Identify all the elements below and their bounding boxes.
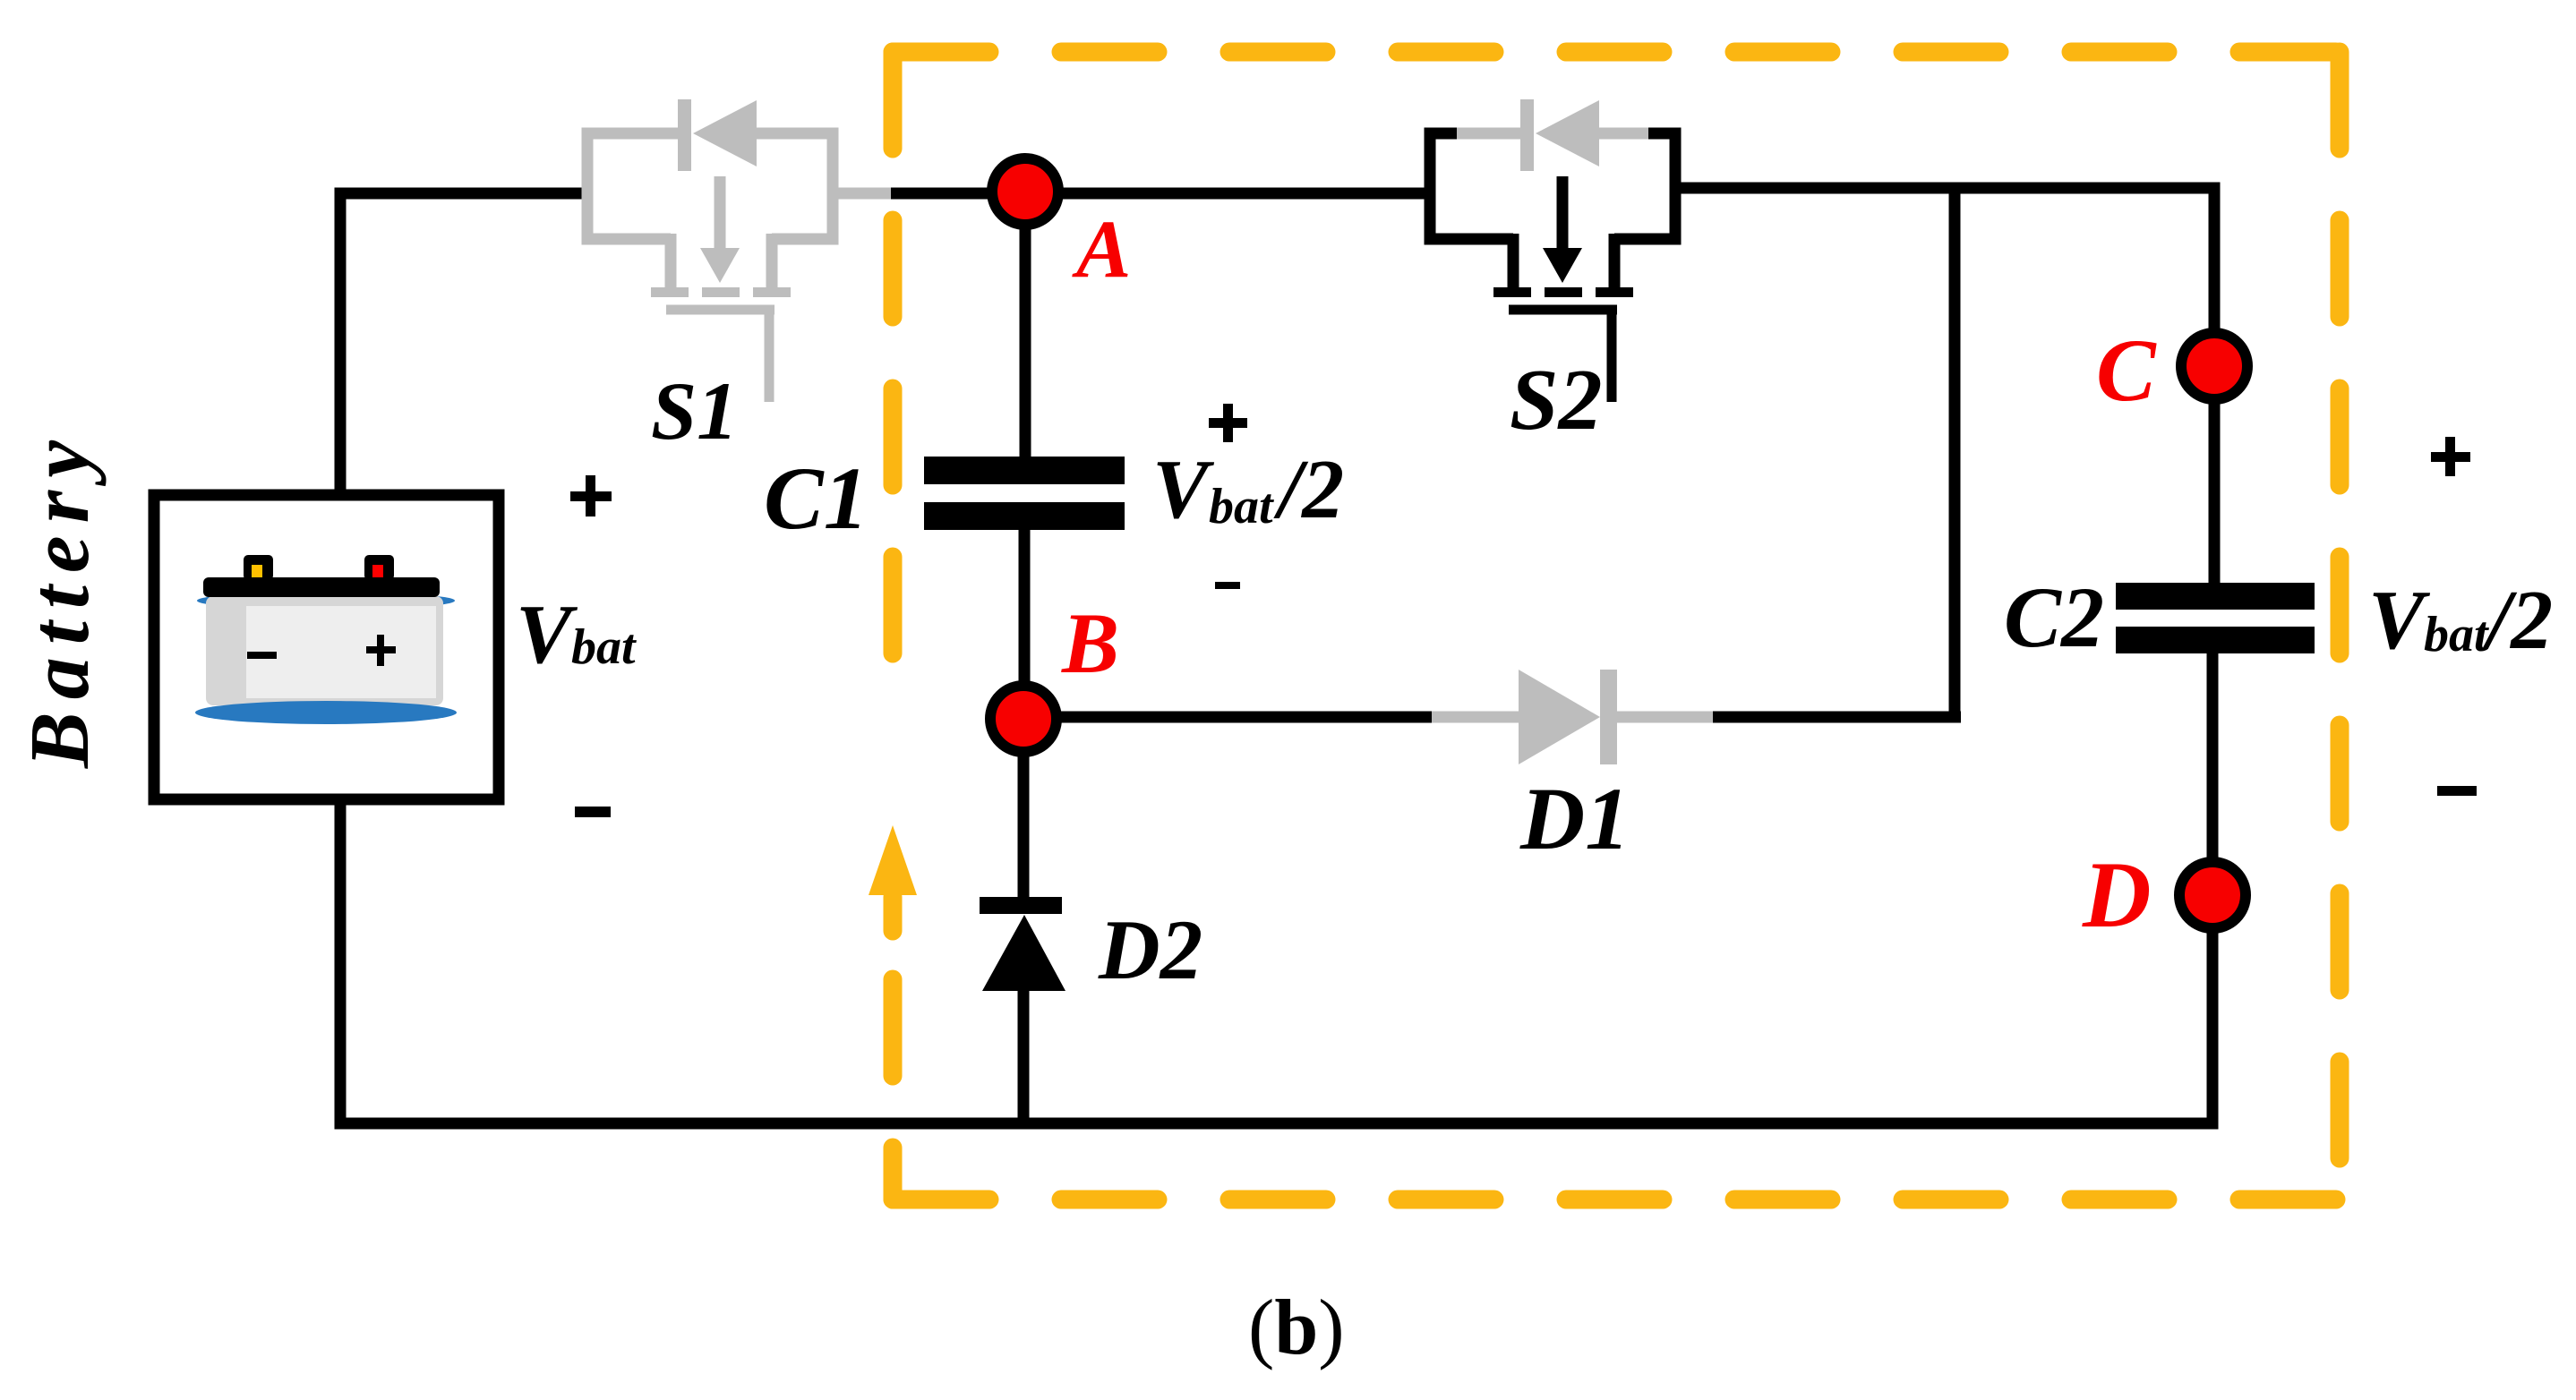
svg-text:D: D bbox=[2082, 842, 2152, 947]
svg-text:S2: S2 bbox=[1510, 352, 1603, 448]
diode D1 bbox=[1432, 670, 1713, 764]
node D bbox=[2179, 862, 2246, 928]
svg-text:bat: bat bbox=[1209, 479, 1274, 534]
wire: battery plus riser and top run to S1 bbox=[340, 193, 587, 490]
svg-text:/2: /2 bbox=[1273, 443, 1344, 536]
capacitor C2 bbox=[2116, 583, 2315, 653]
wire: node A down to C1 top plate bbox=[1020, 192, 1031, 458]
transistor S1 bbox=[587, 99, 833, 402]
battery box bbox=[154, 495, 499, 799]
svg-text:V: V bbox=[516, 588, 578, 681]
node A bbox=[992, 158, 1058, 225]
svg-text:B: B bbox=[1061, 595, 1119, 691]
wire: node B to D1 and D1 to riser bbox=[1023, 712, 1961, 723]
transistor S2 bbox=[1430, 99, 1675, 402]
svg-text:bat: bat bbox=[571, 619, 637, 675]
capacitor C1 bbox=[924, 457, 1125, 530]
svg-text:C1: C1 bbox=[764, 448, 869, 548]
wire: D1 riser to top-right run bbox=[1949, 188, 1961, 717]
output minus sign bbox=[2437, 786, 2477, 796]
node B bbox=[990, 686, 1057, 752]
node C bbox=[2181, 333, 2247, 399]
wire: battery minus riser, bottom rail and right riser to C2 bbox=[340, 652, 2212, 1123]
battery icon bbox=[195, 555, 457, 724]
svg-text:S1: S1 bbox=[651, 365, 738, 457]
svg-text:bat: bat bbox=[2424, 607, 2489, 662]
output plus sign bbox=[2431, 437, 2470, 476]
wire: D2 anode down to bottom rail bbox=[1018, 989, 1030, 1123]
battery plus sign bbox=[570, 475, 612, 516]
C1 minus sign bbox=[1215, 582, 1240, 589]
diode D2 bbox=[980, 897, 1065, 991]
C1 plus sign bbox=[1209, 404, 1247, 442]
svg-text:/2: /2 bbox=[2482, 574, 2553, 667]
svg-text:V: V bbox=[1152, 443, 1215, 536]
wire: S1 drain gray stub bbox=[833, 188, 903, 200]
svg-text:C2: C2 bbox=[2004, 569, 2104, 665]
yellow current direction arrow bbox=[869, 825, 917, 931]
battery minus sign bbox=[575, 807, 611, 817]
wire: C1 bottom plate to node B bbox=[1019, 528, 1031, 719]
svg-text:A: A bbox=[1072, 203, 1131, 295]
svg-text:(b): (b) bbox=[1248, 1285, 1345, 1371]
wire: node B down to D2 cathode bbox=[1018, 719, 1030, 899]
wire: node A row from boundary to S2 bbox=[891, 188, 1430, 200]
svg-text:D2: D2 bbox=[1098, 902, 1202, 997]
svg-text:Battery: Battery bbox=[13, 428, 107, 769]
svg-text:D1: D1 bbox=[1519, 769, 1630, 868]
wire: C2 top plate riser through node C and top-right run to S2 bbox=[1675, 188, 2214, 585]
svg-text:C: C bbox=[2096, 320, 2157, 420]
svg-text:V: V bbox=[2368, 574, 2431, 667]
yellow dashed boundary box bbox=[893, 52, 2340, 1199]
